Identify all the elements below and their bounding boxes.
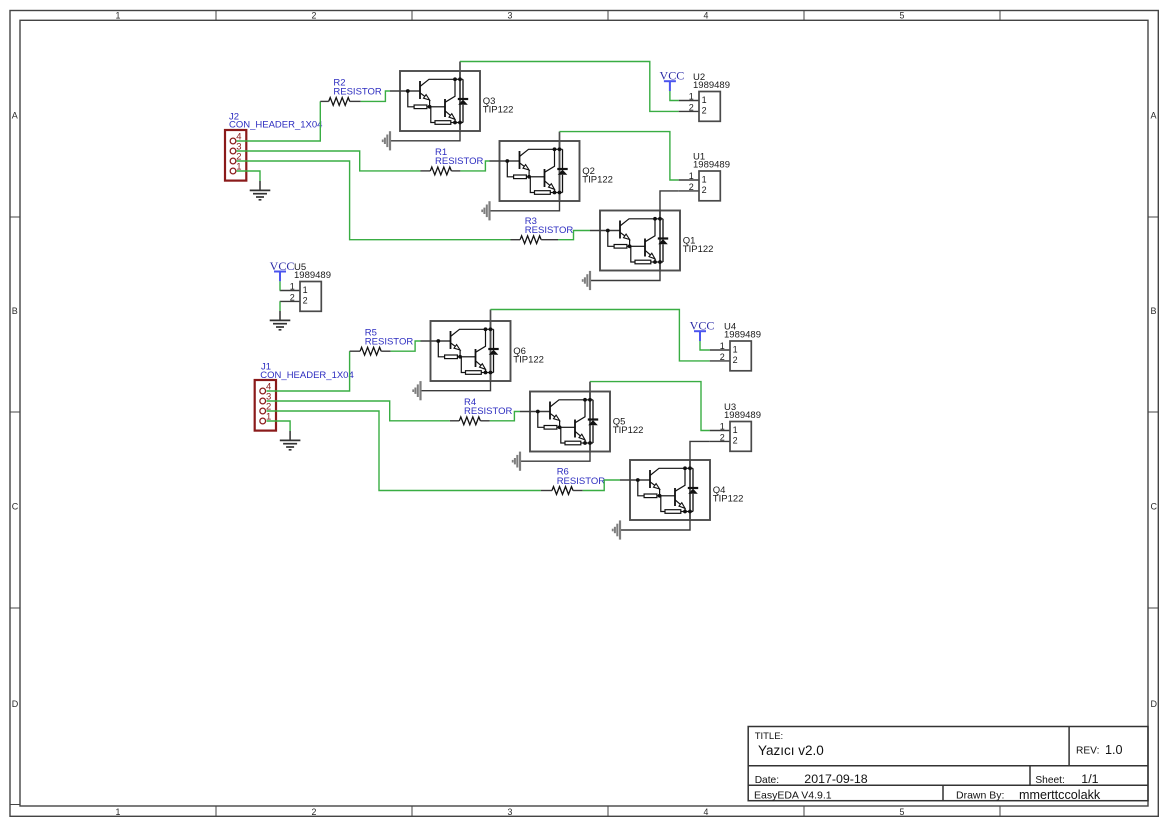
connector U4 (1989489)	[710, 322, 761, 371]
svg-text:RESISTOR: RESISTOR	[557, 476, 606, 487]
wire Q5 emitter to ground	[521, 452, 590, 462]
svg-text:1989489: 1989489	[693, 160, 730, 171]
ground (J1 pin1)	[280, 431, 301, 450]
border column ticks top	[216, 11, 1000, 21]
svg-text:2017-09-18: 2017-09-18	[804, 772, 867, 786]
wire R6 to Q4 base	[583, 480, 620, 491]
ground (Q1 emitter)	[583, 271, 590, 290]
svg-text:Drawn By:: Drawn By:	[956, 790, 1004, 802]
wire U1 pin2 to Q1 collector	[660, 191, 679, 211]
svg-text:C: C	[12, 502, 19, 512]
svg-text:4: 4	[704, 807, 709, 817]
ground (Q3 emitter)	[383, 131, 390, 150]
svg-text:D: D	[1151, 699, 1158, 709]
wire J2 pin4 to R2	[237, 101, 321, 141]
wire R3 to Q1 base	[558, 231, 590, 240]
svg-text:B: B	[1151, 306, 1157, 316]
svg-text:1989489: 1989489	[724, 330, 761, 341]
ground (Q2 emitter)	[482, 201, 489, 220]
svg-text:1/1: 1/1	[1081, 772, 1098, 786]
svg-text:VCC: VCC	[660, 69, 685, 83]
wire Q3 emitter to ground	[391, 131, 460, 141]
wire Q6 emitter to ground	[422, 381, 491, 391]
wire J1 pin2 to R6	[267, 411, 541, 491]
border column ticks bottom	[216, 806, 1000, 816]
title block	[748, 727, 1148, 801]
resistor R5 (RESISTOR)	[350, 327, 414, 355]
svg-text:Sheet:: Sheet:	[1035, 775, 1064, 786]
title block text	[754, 731, 1123, 802]
wire Q6 collector to U4 pin2	[491, 310, 710, 361]
wire Q2 collector stub	[559, 132, 561, 142]
wire J1 pin3 to R4	[267, 401, 450, 421]
svg-text:1: 1	[116, 807, 121, 817]
connector U5 (1989489)	[280, 262, 331, 311]
svg-text:mmerttccolakk: mmerttccolakk	[1019, 788, 1101, 802]
resistor R2 (RESISTOR)	[320, 78, 382, 106]
svg-text:REV:: REV:	[1076, 745, 1099, 756]
svg-text:TIP122: TIP122	[483, 104, 514, 115]
wire Q2 collector to U1 pin1	[560, 132, 679, 180]
svg-text:1: 1	[116, 10, 121, 20]
wire R5 to Q6 base	[391, 341, 421, 351]
wire Q2 emitter to ground	[491, 201, 560, 211]
svg-text:TIP122: TIP122	[582, 174, 613, 185]
svg-text:1989489: 1989489	[294, 270, 331, 281]
transistor Q4 (TIP122 darlington)	[620, 460, 743, 520]
resistor R6 (RESISTOR)	[541, 467, 605, 495]
wire U5 pin2 to ground	[279, 301, 281, 311]
svg-text:A: A	[12, 111, 18, 121]
border row letters right	[1151, 111, 1158, 710]
wire U3 pin2 to Q4 collector	[690, 441, 710, 460]
svg-text:RESISTOR: RESISTOR	[365, 337, 414, 348]
svg-text:1.0: 1.0	[1105, 743, 1123, 757]
svg-text:CON_HEADER_1X04: CON_HEADER_1X04	[229, 120, 322, 131]
svg-text:RESISTOR: RESISTOR	[333, 87, 382, 98]
border row ticks right	[1148, 217, 1158, 608]
wire Q1 emitter to ground	[591, 271, 660, 281]
svg-text:3: 3	[508, 807, 513, 817]
border row letters left	[12, 111, 19, 710]
svg-text:5: 5	[900, 807, 905, 817]
transistor Q1 (TIP122 darlington)	[590, 211, 713, 271]
svg-text:TIP122: TIP122	[683, 244, 714, 255]
ground (Q5 emitter)	[513, 452, 520, 471]
svg-text:2: 2	[312, 807, 317, 817]
ground (J2 pin1)	[250, 181, 271, 200]
svg-text:TIP122: TIP122	[613, 425, 644, 436]
wire J1 pin1 to ground	[267, 421, 291, 431]
connector U2 (1989489)	[679, 72, 730, 121]
svg-text:1989489: 1989489	[693, 80, 730, 91]
wire VCC to U2 pin1	[670, 91, 679, 101]
resistor R1 (RESISTOR)	[421, 147, 484, 175]
connector J2 (CON_HEADER_1X04)	[225, 111, 322, 180]
svg-text:EasyEDA V4.9.1: EasyEDA V4.9.1	[754, 790, 832, 802]
border row ticks left	[10, 217, 20, 805]
svg-text:Date:: Date:	[755, 775, 779, 786]
power VCC (U5)	[270, 259, 295, 282]
svg-text:1989489: 1989489	[724, 410, 761, 421]
wire Q6 collector stub	[490, 310, 492, 322]
border column numbers bottom	[116, 807, 905, 817]
svg-text:RESISTOR: RESISTOR	[464, 406, 513, 417]
wire J2 pin1 to ground	[237, 171, 261, 181]
resistor R3 (RESISTOR)	[511, 216, 574, 244]
svg-text:RESISTOR: RESISTOR	[435, 156, 484, 167]
wire Q3 collector to U2 pin2	[460, 62, 679, 112]
svg-text:D: D	[12, 699, 19, 709]
svg-text:2: 2	[312, 10, 317, 20]
connector J1 (CON_HEADER_1X04)	[255, 362, 354, 431]
wire Q5 collector stub	[589, 382, 591, 393]
power VCC (U2)	[660, 69, 685, 92]
svg-text:B: B	[12, 306, 18, 316]
wire J2 pin3 to R1	[237, 151, 421, 171]
svg-text:5: 5	[900, 10, 905, 20]
transistor Q2 (TIP122 darlington)	[490, 141, 613, 201]
ground (U5 pin2)	[270, 311, 291, 330]
power VCC (U4)	[690, 319, 715, 342]
border column numbers top	[116, 10, 905, 20]
svg-text:TITLE:: TITLE:	[755, 731, 784, 742]
svg-text:3: 3	[508, 10, 513, 20]
svg-text:CON_HEADER_1X04: CON_HEADER_1X04	[260, 370, 353, 381]
resistor R4 (RESISTOR)	[450, 397, 513, 425]
wire Q3 collector stub	[459, 62, 461, 72]
wire VCC to U5 pin1	[279, 281, 281, 290]
wire R2 to Q3 base	[361, 91, 390, 101]
ground (Q4 emitter)	[613, 520, 620, 539]
svg-text:C: C	[1151, 502, 1158, 512]
svg-text:RESISTOR: RESISTOR	[525, 225, 574, 236]
wire Q4 emitter to ground	[621, 520, 690, 530]
svg-text:4: 4	[704, 10, 709, 20]
svg-text:TIP122: TIP122	[713, 493, 744, 504]
wire J1 pin4 to R5	[267, 351, 350, 391]
wire R4 to Q5 base	[490, 412, 520, 421]
wire Q5 collector to U3 pin1	[590, 382, 710, 431]
transistor Q6 (TIP122 darlington)	[421, 321, 544, 381]
connector U3 (1989489)	[710, 402, 761, 451]
connector U1 (1989489)	[679, 152, 730, 201]
transistor Q5 (TIP122 darlington)	[520, 392, 643, 452]
ground (Q6 emitter)	[413, 381, 420, 400]
transistor Q3 (TIP122 darlington)	[390, 71, 513, 131]
svg-text:TIP122: TIP122	[513, 354, 544, 365]
wire R1 to Q2 base	[460, 161, 489, 171]
svg-text:Yazıcı v2.0: Yazıcı v2.0	[758, 743, 824, 758]
wire VCC to U4 pin1	[700, 341, 710, 350]
svg-text:A: A	[1151, 111, 1157, 121]
svg-text:VCC: VCC	[690, 319, 715, 333]
svg-text:VCC: VCC	[270, 259, 295, 273]
wire J2 pin2 to R3	[237, 161, 511, 240]
